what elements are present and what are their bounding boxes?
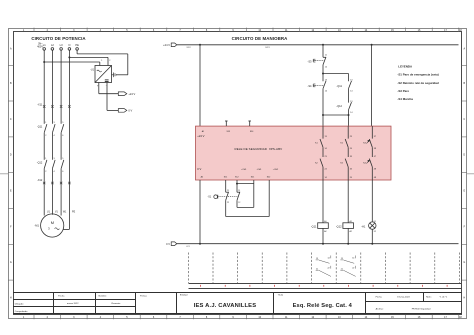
contactor Q11 main contacts [44, 124, 64, 133]
wire bus down to stop button S3 [322, 45, 324, 58]
svg-text:N: N [68, 43, 70, 47]
motor M1 terminal labels U1 V1 W1 PE [47, 212, 76, 214]
frame row ruler ticks right [462, 65, 467, 280]
svg-text:-Q12: -Q12 [37, 161, 43, 164]
junction Q12 coil on 0V bus [347, 243, 349, 245]
svg-text:Firmas: Firmas [140, 294, 148, 297]
frame column ruler ticks bottom [34, 315, 459, 320]
contactor coil Q12 [343, 223, 354, 229]
title block right info [376, 295, 448, 310]
svg-text:A2: A2 [324, 230, 326, 233]
svg-text:0 V: 0 V [187, 246, 191, 248]
svg-text:22: 22 [328, 268, 330, 270]
svg-text:PE: PE [72, 212, 76, 214]
power supply earth symbol [112, 73, 117, 78]
svg-text:G: G [463, 261, 465, 264]
svg-text:-S1: -S1 [207, 196, 211, 199]
svg-text:21: 21 [227, 190, 229, 192]
contact mirror references under coil at x=311.5 [316, 257, 330, 270]
svg-text:S33: S33 [227, 131, 230, 133]
wire PE to power supply earth [76, 50, 78, 54]
svg-text:-S2 Reinicio relé de seguridad: -S2 Reinicio relé de seguridad [397, 81, 439, 85]
svg-text:D: D [10, 154, 12, 157]
svg-text:marzo 2022: marzo 2022 [67, 302, 79, 305]
contactor Q11 auxiliary contact NO [348, 74, 350, 82]
junction bus to relay A1 [199, 44, 201, 46]
svg-text:-S3 Paro: -S3 Paro [397, 89, 409, 93]
svg-text:G: G [10, 261, 12, 264]
svg-text:X1: X1 [374, 221, 376, 223]
signal lamp H1 [369, 222, 376, 229]
svg-text:H: H [10, 296, 12, 299]
svg-text:11: 11 [238, 190, 240, 192]
pushbutton S4 start NO [322, 74, 324, 82]
wire relay 48 to lamp H1 [371, 180, 373, 222]
svg-text:24 V: 24 V [187, 47, 192, 49]
wire PSU plus output to 24V tag [99, 83, 119, 111]
svg-text:M: M [51, 220, 54, 225]
svg-text:-M1: -M1 [34, 223, 39, 227]
svg-text:24 V: 24 V [265, 47, 270, 49]
svg-text:C: C [10, 118, 12, 121]
svg-text:Dibujado: Dibujado [15, 304, 24, 306]
wire start circuit into relay S34 [348, 115, 350, 126]
junction L1 to PSU [43, 61, 45, 63]
junction lamp on 0V bus [371, 243, 373, 245]
svg-text:Título: Título [278, 294, 284, 297]
svg-text:-Q12: -Q12 [336, 104, 342, 108]
junction S3 to S4 and Q11 branch [322, 73, 324, 75]
svg-text:IES A.J. CAVANILLES: IES A.J. CAVANILLES [194, 303, 257, 309]
svg-text:-CH1: -CH1 [257, 169, 263, 171]
svg-text:S34: S34 [250, 131, 253, 133]
svg-text:0 V: 0 V [166, 242, 170, 246]
power supply U1 AC/DC [95, 66, 112, 83]
wire relay A2 to 0V bus [199, 180, 201, 244]
wire bus to relay output column feed [371, 45, 373, 126]
wire L2 phase down to motor [51, 50, 53, 124]
relay unconnected reset terminals Y1 Y2 [225, 121, 251, 126]
svg-text:-U1: -U1 [90, 68, 95, 71]
svg-text:RELE DE SEGURIDAD XPS-ABV: RELE DE SEGURIDAD XPS-ABV [235, 147, 283, 151]
svg-text:*1 de *1: *1 de *1 [439, 296, 448, 298]
svg-text:-S4: -S4 [307, 84, 312, 88]
relay output contacts column at x=372.3 [369, 126, 372, 180]
connection tag +24V output [118, 92, 127, 96]
svg-text:22: 22 [227, 202, 229, 204]
svg-text:0 V: 0 V [197, 167, 201, 171]
svg-text:C: C [463, 118, 465, 121]
wire 0V control bus [177, 243, 459, 245]
svg-text:+CH1: +CH1 [241, 169, 247, 171]
cross reference wire number marks (red) [201, 285, 448, 287]
junction bus to S3 [322, 44, 324, 46]
svg-text:A2: A2 [350, 230, 352, 233]
wire N branch to power supply input 2 [69, 56, 108, 58]
junction start circuit to relay inputs [322, 114, 324, 116]
svg-text:LEYENDA: LEYENDA [398, 65, 413, 69]
wire bus to relay terminal A1 [199, 45, 201, 126]
svg-text:Nombre: Nombre [99, 294, 108, 297]
svg-text:Entidad: Entidad [180, 294, 188, 297]
svg-text:-Q11: -Q11 [336, 84, 342, 88]
safety relay K1 module (pink) [196, 126, 392, 180]
title block frame [13, 293, 462, 314]
svg-text:0 V: 0 V [128, 109, 132, 113]
supply terminals L1 L2 L3 N PE [43, 43, 79, 47]
wire relay 24 to contactor coil Q12 [347, 180, 349, 223]
svg-text:+CH2: +CH2 [273, 169, 279, 171]
cross reference band rules [188, 284, 461, 289]
wire L1 branch to power supply input 1 [44, 61, 100, 63]
wire N / PE conductor down to motor earth [68, 50, 70, 229]
relay output contacts column at x=348.2 [345, 126, 348, 180]
svg-text:-S4 Marcha: -S4 Marcha [397, 97, 413, 101]
svg-text:14: 14 [328, 257, 330, 259]
svg-text:-Q12: -Q12 [336, 225, 342, 229]
title block row labels [15, 302, 121, 313]
wire PSU minus output to 0V tag [106, 83, 108, 111]
svg-text:19-mar-2022: 19-mar-2022 [397, 295, 410, 298]
svg-text:CIRCUITO DE MANIOBRA: CIRCUITO DE MANIOBRA [232, 36, 289, 41]
svg-text:-Q11: -Q11 [37, 126, 43, 129]
svg-text:14: 14 [352, 257, 354, 259]
emergency stop S1 channel 2 wiring [237, 180, 254, 207]
emergency stop S1 channel 1 wiring [226, 180, 270, 217]
wire L3 phase down to motor [60, 50, 62, 124]
motor M1 [41, 214, 64, 237]
svg-text:12: 12 [238, 202, 240, 204]
S3 manual actuator [313, 59, 323, 62]
contactor coil Q11 [318, 223, 329, 229]
svg-text:Núm.:: Núm.: [426, 296, 432, 298]
svg-text:-X11: -X11 [37, 103, 43, 106]
S1 contact pin numbers [227, 190, 240, 204]
junction bus to relay output feed [371, 44, 373, 46]
svg-text:D: D [463, 154, 465, 157]
legend LEYENDA [397, 65, 439, 101]
svg-text:Comprobado: Comprobado [15, 310, 28, 313]
svg-text:Fecha: Fecha [376, 296, 383, 298]
svg-text:22: 22 [352, 268, 354, 270]
junction Q11 coil on 0V bus [322, 243, 324, 245]
svg-text:Fecha: Fecha [58, 295, 65, 297]
svg-text:Archivo:: Archivo: [376, 307, 384, 310]
contactor Q12 main contacts [44, 160, 64, 169]
svg-text:-X12: -X12 [37, 179, 43, 182]
S4 manual actuator [313, 84, 323, 87]
svg-text:-Q11: -Q11 [311, 225, 317, 229]
svg-text:FR Relé Seguridad: FR Relé Seguridad [412, 307, 431, 310]
svg-text:A1: A1 [350, 220, 352, 223]
contact mirror references under coil at x=336.2 [341, 257, 355, 270]
svg-text:+24 V: +24 V [163, 43, 170, 47]
sheet centering marks [0, 173, 474, 175]
svg-text:400V: 400V [37, 46, 43, 49]
svg-text:A1: A1 [324, 220, 326, 223]
terminal strip X11 [43, 105, 71, 107]
title block header labels [58, 294, 284, 298]
svg-text:X2: X2 [374, 231, 376, 233]
svg-text:-S3: -S3 [307, 59, 312, 63]
drawing frame inner border [14, 32, 462, 315]
relay bottom terminal labels [201, 175, 272, 178]
wire +24V control bus [177, 44, 459, 46]
svg-text:+24 V: +24 V [128, 92, 135, 96]
svg-text:PE: PE [75, 43, 79, 47]
cross reference band separators [188, 253, 459, 284]
junction A2 on 0V bus [199, 243, 201, 245]
svg-text:Clemente: Clemente [111, 302, 121, 305]
svg-text:H: H [463, 296, 465, 299]
wire start circuit into relay S33 [322, 115, 324, 126]
svg-text:CIRCUITO DE POTENCIA: CIRCUITO DE POTENCIA [31, 36, 86, 41]
svg-text:Esq. Relé Seg. Cat. 4: Esq. Relé Seg. Cat. 4 [293, 303, 353, 309]
svg-text:-H1: -H1 [361, 225, 366, 229]
wire L1 phase down to motor [44, 50, 128, 229]
wire relay 14 to contactor coil Q11 [322, 180, 324, 223]
relay output contacts column at x=323.0 [320, 126, 323, 180]
frame row ruler ticks left [8, 65, 13, 280]
frame column ruler ticks top [34, 28, 459, 32]
svg-text:+24 V: +24 V [197, 134, 204, 138]
frame row letters [10, 47, 466, 299]
connection tag 0V output [118, 109, 127, 113]
junction N to PSU [68, 56, 70, 58]
terminal strip X12 [43, 182, 71, 184]
svg-text:-S1 Paro de emergencia (seta): -S1 Paro de emergencia (seta) [397, 73, 438, 77]
